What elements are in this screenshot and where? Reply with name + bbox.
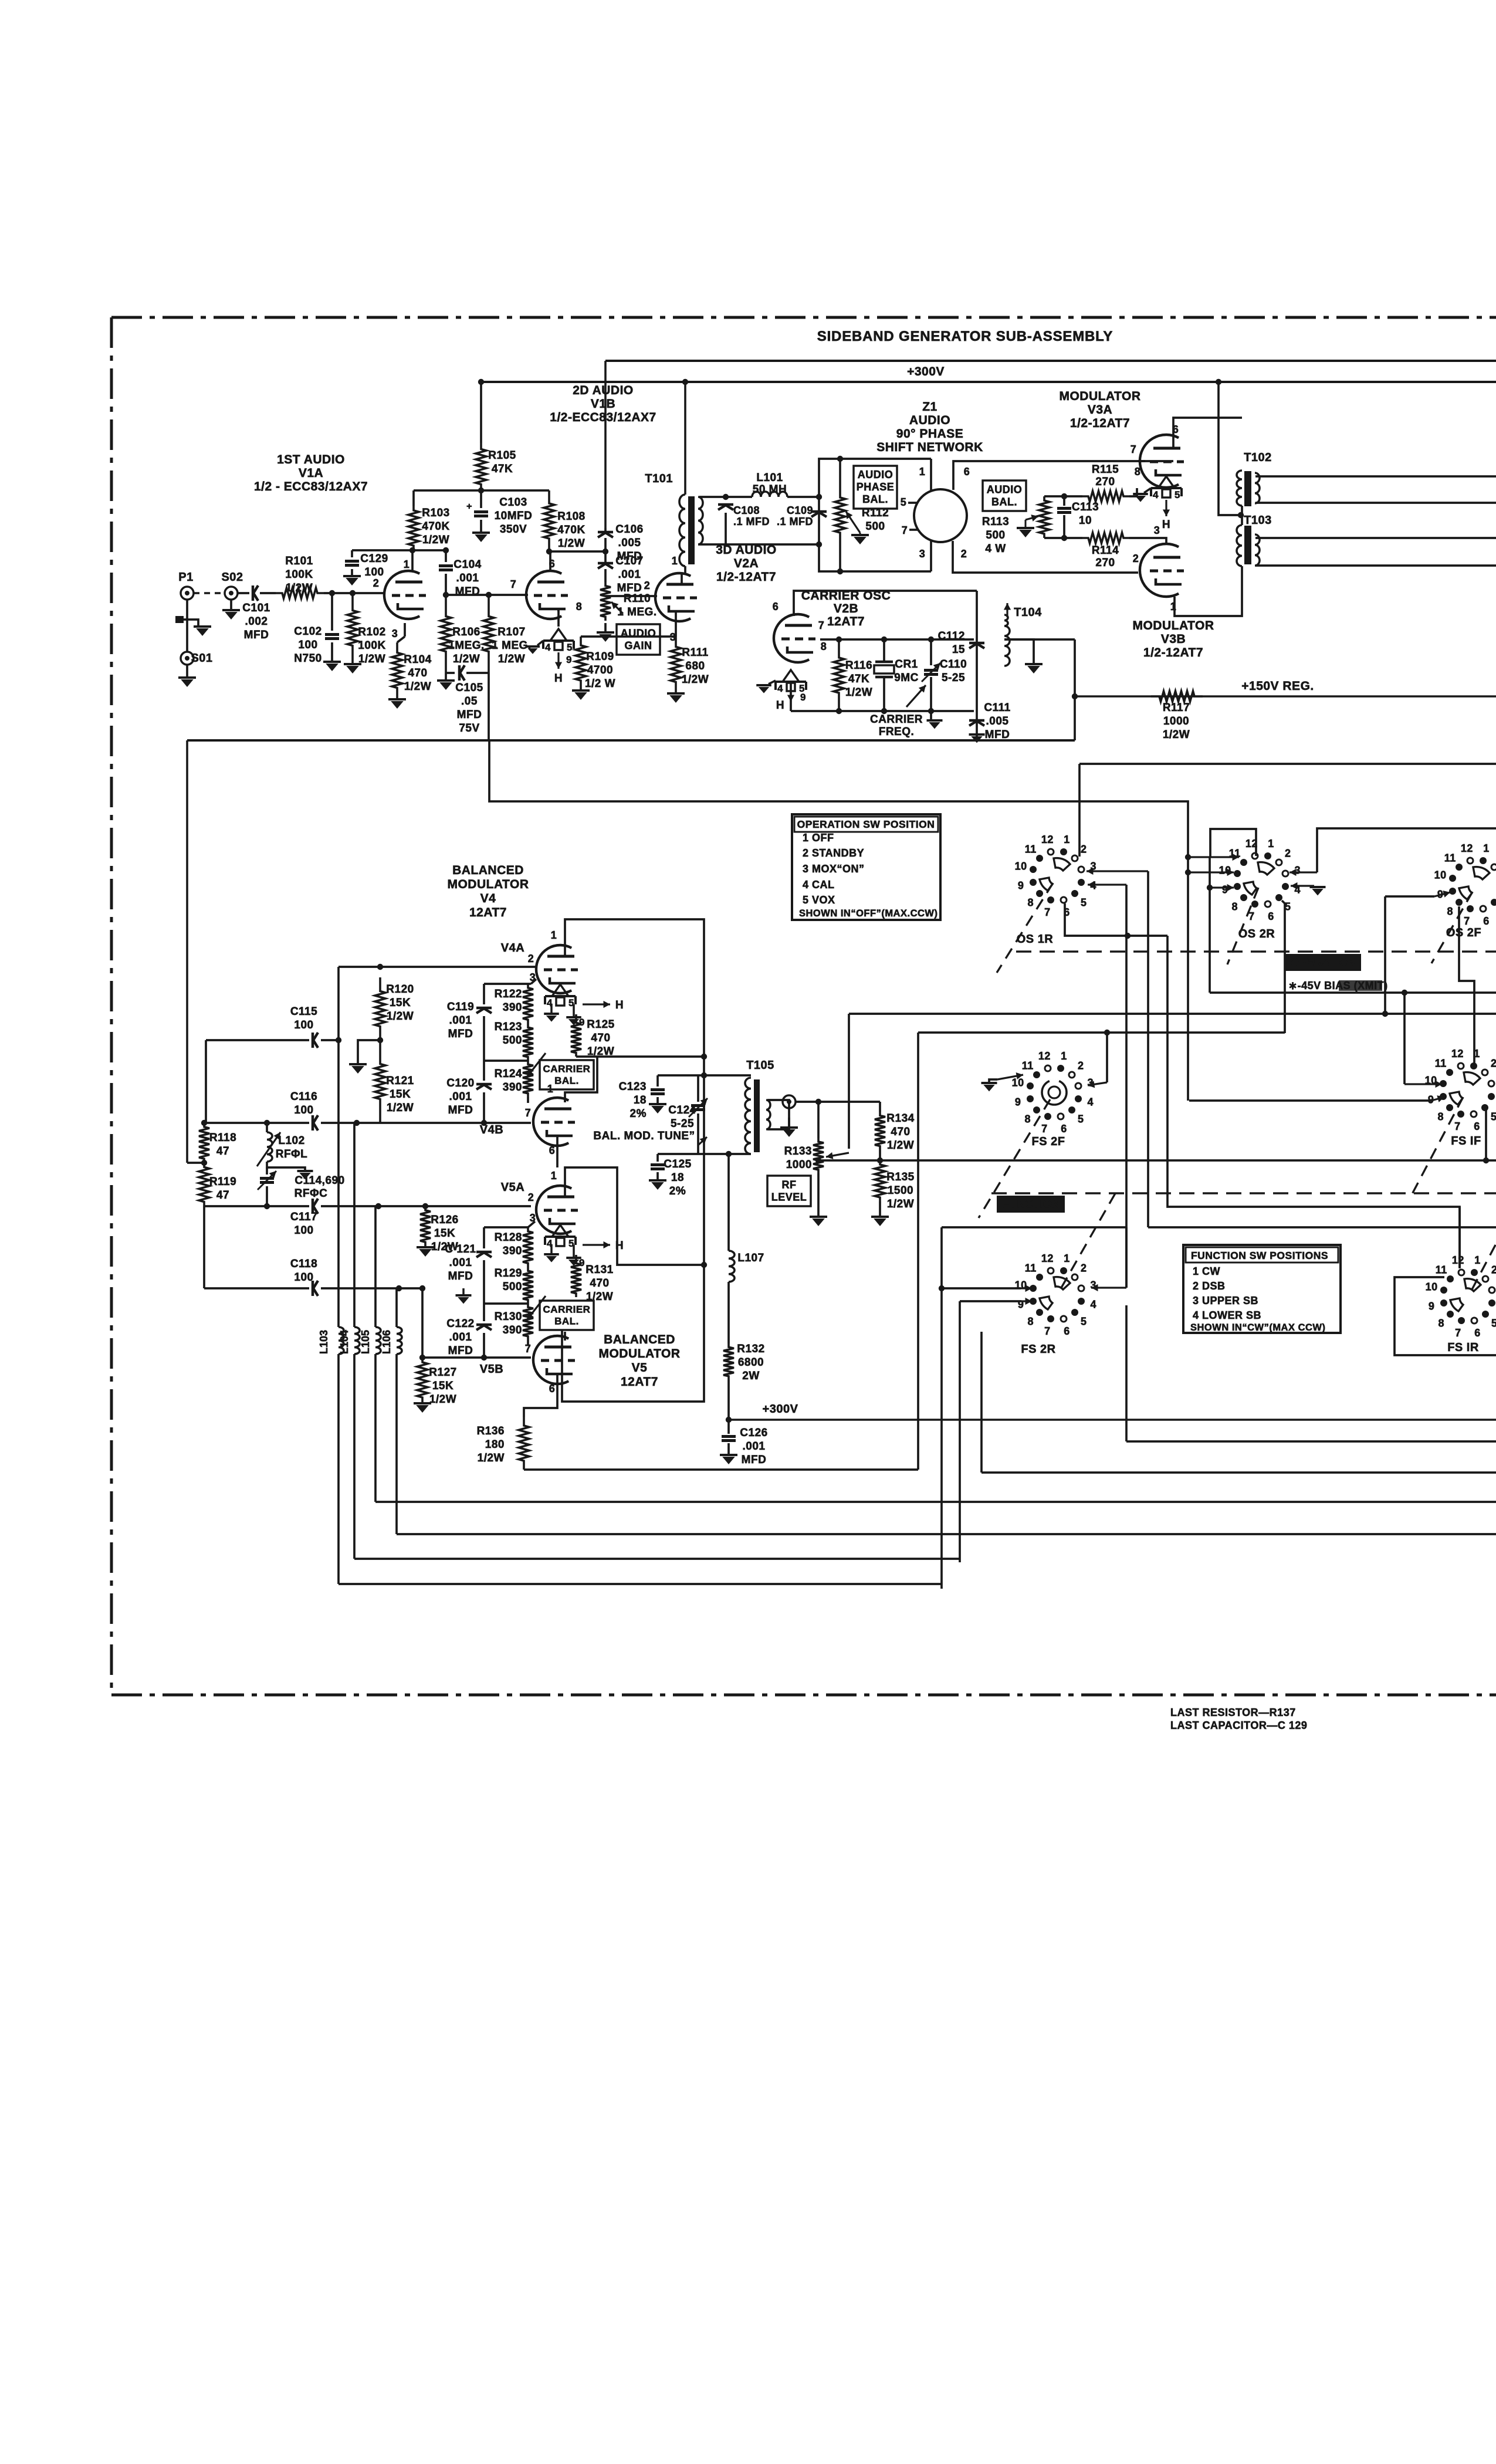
resistor R103 xyxy=(408,506,450,550)
ground C102 xyxy=(323,662,341,671)
svg-text:1 CW: 1 CW xyxy=(1193,1265,1220,1277)
tube V3A xyxy=(1140,435,1184,488)
svg-text:500: 500 xyxy=(503,1034,522,1047)
svg-text:MODULATOR: MODULATOR xyxy=(447,878,529,891)
svg-text:C119: C119 xyxy=(447,1001,474,1013)
svg-text:10: 10 xyxy=(1425,1074,1437,1086)
svg-text:C116: C116 xyxy=(290,1091,317,1103)
svg-text:3: 3 xyxy=(392,628,398,639)
svg-text:CARRIER: CARRIER xyxy=(543,1064,591,1075)
svg-text:6: 6 xyxy=(1474,1327,1481,1339)
svg-text:5: 5 xyxy=(1491,1111,1496,1122)
wire V5B plate xyxy=(528,1332,565,1345)
svg-text:1/2-ECC83/12AX7: 1/2-ECC83/12AX7 xyxy=(550,411,656,424)
svg-text:10MFD: 10MFD xyxy=(495,510,533,522)
resistor R102 xyxy=(347,593,386,665)
svg-text:11: 11 xyxy=(1025,1263,1037,1274)
svg-text:1: 1 xyxy=(1474,1254,1481,1266)
wire R107 bottom to box xyxy=(488,673,490,739)
svg-text:7: 7 xyxy=(1044,1325,1051,1337)
resistor R116 xyxy=(834,639,872,711)
svg-text:RFΦL: RFΦL xyxy=(276,1148,308,1160)
T102 secondary wires xyxy=(1255,476,1496,503)
capacitor C103 xyxy=(466,490,532,536)
tube V5A xyxy=(536,1186,578,1234)
transformer T103 xyxy=(1237,514,1272,566)
svg-text:6: 6 xyxy=(1474,1121,1480,1132)
svg-text:R128: R128 xyxy=(495,1231,522,1244)
V4A labels xyxy=(501,929,557,983)
wire runback L104 xyxy=(354,1558,960,1560)
ground R104 xyxy=(388,699,406,709)
capacitor C126 xyxy=(720,1420,768,1466)
svg-text:C129: C129 xyxy=(360,553,388,565)
wire plate bus to T105 xyxy=(701,1057,707,1265)
svg-text:5-25: 5-25 xyxy=(942,672,965,684)
svg-text:R135: R135 xyxy=(886,1171,914,1183)
wire FS2F box top xyxy=(918,1030,1110,1035)
svg-text:+300V: +300V xyxy=(763,1403,798,1416)
wire riser x1673 xyxy=(980,1332,983,1473)
svg-text:1: 1 xyxy=(1474,1048,1480,1060)
capacitor C118 xyxy=(204,1258,425,1296)
svg-text:8: 8 xyxy=(1024,1113,1031,1125)
wire runback y2510 xyxy=(981,1471,1496,1474)
svg-text:R114: R114 xyxy=(1092,544,1119,557)
resistor R130 xyxy=(495,1296,546,1340)
wire riser x1920 lower xyxy=(1125,1305,1128,1441)
svg-text:2: 2 xyxy=(1081,1263,1087,1274)
potentiometer R112 xyxy=(835,459,889,571)
svg-text:6: 6 xyxy=(1061,1123,1067,1135)
svg-text:8: 8 xyxy=(1135,466,1141,478)
svg-text:7: 7 xyxy=(1131,444,1137,455)
wire C117-C118 left link xyxy=(203,1206,205,1288)
inductor L104 xyxy=(339,1327,360,1559)
audio section enclosure bottom xyxy=(187,739,1075,742)
svg-text:MFD: MFD xyxy=(244,629,269,641)
svg-text:9: 9 xyxy=(579,1257,585,1268)
svg-text:SHOWN IN“CW”(MAX CCW): SHOWN IN“CW”(MAX CCW) xyxy=(1190,1322,1325,1333)
ground C129 xyxy=(343,576,361,585)
resistor R124 xyxy=(495,1053,546,1097)
svg-text:R115: R115 xyxy=(1092,463,1119,476)
svg-text:.05: .05 xyxy=(461,695,478,708)
svg-text:C110: C110 xyxy=(940,658,967,671)
svg-text:1/2 - ECC83/12AX7: 1/2 - ECC83/12AX7 xyxy=(254,480,368,493)
capacitor C121 xyxy=(445,1227,492,1304)
svg-text:9: 9 xyxy=(1015,1096,1021,1108)
svg-text:1: 1 xyxy=(404,559,410,570)
svg-text:V3B: V3B xyxy=(1161,632,1186,646)
svg-text:.1 MFD: .1 MFD xyxy=(777,516,813,527)
tube V5B xyxy=(533,1336,575,1384)
wire V1A grid to V1B xyxy=(446,578,528,598)
svg-text:OS 2F: OS 2F xyxy=(1446,926,1481,939)
svg-text:5: 5 xyxy=(1081,896,1087,908)
svg-text:T103: T103 xyxy=(1244,514,1272,527)
svg-text:3: 3 xyxy=(919,548,926,560)
resistor R132 xyxy=(723,1343,765,1420)
wire V4B grid xyxy=(380,1120,531,1126)
svg-text:9: 9 xyxy=(579,1017,585,1028)
heater cluster V3A xyxy=(1151,476,1182,531)
svg-text:.001: .001 xyxy=(449,1091,472,1103)
svg-text:FUNCTION SW POSITIONS: FUNCTION SW POSITIONS xyxy=(1191,1250,1328,1261)
potentiometer R113 xyxy=(982,496,1050,555)
wire V5A grid xyxy=(378,1203,531,1209)
wire grid bus above V1A xyxy=(352,547,449,553)
wire T105 secondary xyxy=(767,1100,789,1129)
capacitor C115 xyxy=(206,1006,341,1048)
resistor R106 xyxy=(441,595,485,673)
wire OS2R c4 ground xyxy=(1291,882,1326,896)
transformer T104 xyxy=(1004,603,1043,673)
svg-text:9: 9 xyxy=(1429,1301,1435,1312)
wire V4B cathode down xyxy=(556,1137,559,1167)
svg-text:R113: R113 xyxy=(982,516,1009,528)
wire bus y1302 xyxy=(1079,763,1496,765)
svg-text:P1: P1 xyxy=(178,571,193,584)
tube V3B xyxy=(1140,544,1184,597)
wire y1723 riser xyxy=(848,1014,850,1149)
resistor R117 xyxy=(1151,691,1203,741)
rotary switch FS 2F xyxy=(979,1050,1094,1218)
svg-text:5: 5 xyxy=(901,496,907,508)
capacitor C111 xyxy=(969,702,1011,741)
wire R115 top rail xyxy=(1044,493,1082,499)
svg-text:12: 12 xyxy=(1038,1050,1051,1062)
svg-text:FS 2R: FS 2R xyxy=(1021,1343,1055,1356)
svg-text:OS 1R: OS 1R xyxy=(1017,933,1054,946)
svg-text:FS IF: FS IF xyxy=(1451,1135,1481,1148)
rf level box xyxy=(767,1176,811,1206)
wire V4A pin3 column xyxy=(484,979,536,984)
svg-text:2W: 2W xyxy=(742,1370,760,1382)
wire riser x1636 xyxy=(959,1301,961,1562)
svg-text:C117: C117 xyxy=(290,1211,317,1223)
wire T101 secondary top xyxy=(699,494,729,500)
svg-text:2 STANDBY: 2 STANDBY xyxy=(803,847,864,859)
svg-text:390: 390 xyxy=(503,1245,522,1257)
svg-text:1/2W: 1/2W xyxy=(358,653,385,665)
wire riser x2027 end xyxy=(1187,1100,1189,1101)
wire R103 top xyxy=(414,488,484,506)
svg-text:6: 6 xyxy=(549,1145,556,1156)
svg-text:MODULATOR: MODULATOR xyxy=(598,1347,680,1360)
wire R101 to V1A grid xyxy=(324,590,385,596)
inductor L106 wire xyxy=(395,1288,398,1327)
svg-text:1/2W: 1/2W xyxy=(558,537,585,550)
wire OS2F c9 feed xyxy=(1385,891,1450,898)
wire T101 secondary bottom xyxy=(698,541,822,547)
svg-text:C114,690: C114,690 xyxy=(295,1175,344,1187)
svg-text:7: 7 xyxy=(1464,915,1470,927)
svg-text:470: 470 xyxy=(591,1032,610,1044)
svg-text:BAL.: BAL. xyxy=(991,496,1017,507)
svg-text:11: 11 xyxy=(1435,1058,1447,1069)
svg-text:2: 2 xyxy=(528,1192,534,1203)
transformer T101 xyxy=(645,472,703,566)
svg-text:3 MOX“ON”: 3 MOX“ON” xyxy=(803,863,865,875)
wire FS2R c3 arrow xyxy=(1091,1284,1126,1291)
V1B pin labels xyxy=(549,558,583,612)
svg-text:C101: C101 xyxy=(242,602,270,614)
svg-text:T102: T102 xyxy=(1244,451,1272,464)
resistor R136 xyxy=(477,1417,529,1470)
svg-text:GAIN: GAIN xyxy=(625,639,652,651)
tube V4A xyxy=(536,945,578,993)
svg-text:R109: R109 xyxy=(586,651,614,663)
svg-text:R134: R134 xyxy=(886,1112,914,1125)
svg-text:15K: 15K xyxy=(390,1088,411,1101)
connector S01 xyxy=(181,652,213,665)
V2B heater cluster xyxy=(776,670,806,712)
svg-text:R126: R126 xyxy=(431,1214,458,1226)
svg-text:12: 12 xyxy=(1461,842,1473,854)
capacitor C113 xyxy=(1057,496,1099,541)
audio section enclosure left xyxy=(186,740,188,1163)
svg-text:6800: 6800 xyxy=(738,1356,764,1369)
ground R111 xyxy=(667,693,685,703)
svg-text:N750: N750 xyxy=(294,652,321,665)
operation inverse label xyxy=(1285,954,1361,971)
text BALANCED MODULATOR V4 xyxy=(447,864,529,919)
svg-text:1: 1 xyxy=(1061,1050,1067,1062)
wire OS1R c3 xyxy=(1087,868,1148,1227)
transformer T105 xyxy=(745,1059,774,1154)
wire OS2F c8 drop xyxy=(1459,906,1474,1065)
svg-text:H: H xyxy=(615,999,624,1011)
ground R135 xyxy=(871,1201,889,1226)
svg-text:180: 180 xyxy=(485,1439,505,1451)
wire V4B plate xyxy=(565,1057,597,1102)
svg-text:1/2W: 1/2W xyxy=(887,1198,914,1210)
wire R105 junction to R108 xyxy=(481,489,549,492)
svg-text:R120: R120 xyxy=(386,983,414,996)
svg-text:R127: R127 xyxy=(429,1366,456,1379)
wire OS1R c4 xyxy=(1088,881,1126,1288)
svg-text:L105: L105 xyxy=(360,1330,371,1354)
svg-text:T105: T105 xyxy=(746,1059,774,1072)
svg-text:BAL.: BAL. xyxy=(554,1075,579,1087)
svg-text:OS 2R: OS 2R xyxy=(1238,928,1275,940)
svg-text:H: H xyxy=(776,699,784,712)
ground R113 wiper xyxy=(1017,520,1034,537)
wire R124 to V4B plate xyxy=(527,1097,529,1103)
svg-text:AUDIO: AUDIO xyxy=(858,469,893,480)
svg-text:100: 100 xyxy=(294,1104,313,1116)
wire riser x1605 xyxy=(939,1227,945,1589)
connector S02 xyxy=(221,571,243,600)
svg-text:H: H xyxy=(615,1240,624,1252)
resistor R125 xyxy=(571,1014,615,1058)
svg-text:9: 9 xyxy=(800,692,806,703)
ground FS2F c11 xyxy=(981,1072,1024,1091)
svg-text:1: 1 xyxy=(1064,1253,1070,1264)
inductor L107 xyxy=(726,1151,764,1343)
svg-text:9: 9 xyxy=(1018,880,1024,892)
inductor L101 xyxy=(726,472,822,500)
resistor R119 xyxy=(199,1163,236,1206)
svg-text:SIDEBAND GENERATOR SUB-ASSEM: SIDEBAND GENERATOR SUB-ASSEMBLY xyxy=(817,329,1113,344)
Z1 pin 6 xyxy=(953,461,1173,490)
title SIDEBAND GENERATOR SUB-ASSEMBLY xyxy=(817,329,1113,344)
svg-text:18: 18 xyxy=(671,1172,684,1184)
wire P1-S02 dashed xyxy=(194,592,225,594)
svg-text:1MEG.: 1MEG. xyxy=(448,639,485,652)
svg-text:BAL.: BAL. xyxy=(862,493,888,505)
svg-text:SHIFT NETWORK: SHIFT NETWORK xyxy=(876,441,983,454)
audio phase bal boxed label xyxy=(854,466,897,509)
rotary switch FS 2R xyxy=(1015,1190,1117,1356)
operation dashed line xyxy=(1016,950,1496,953)
svg-text:L104: L104 xyxy=(339,1330,350,1354)
ground V5A cluster xyxy=(544,1245,585,1268)
svg-text:R108: R108 xyxy=(557,510,585,523)
text MODULATOR V3B xyxy=(1132,619,1214,659)
wire V1B plate xyxy=(549,551,551,572)
wire T103 primary bottom to V3B plate xyxy=(1175,566,1242,616)
svg-text:9: 9 xyxy=(566,654,572,665)
svg-text:390: 390 xyxy=(503,1001,522,1014)
svg-text:MFD: MFD xyxy=(448,1345,473,1357)
svg-text:2: 2 xyxy=(1491,1058,1496,1069)
inductor L103 xyxy=(318,1327,344,1584)
FS1R box xyxy=(1395,1277,1496,1355)
svg-text:CARRIER: CARRIER xyxy=(543,1304,591,1315)
rotary switch OS 1R xyxy=(997,834,1096,973)
svg-text:1/2W: 1/2W xyxy=(682,673,709,686)
capacitor C109 xyxy=(777,505,827,527)
resistor R135 xyxy=(875,1160,915,1210)
potentiometer R110 xyxy=(600,582,657,621)
svg-text:500: 500 xyxy=(503,1281,522,1293)
svg-text:FREQ.: FREQ. xyxy=(879,726,915,738)
crystal CR1 xyxy=(874,639,919,711)
svg-text:1: 1 xyxy=(1170,601,1177,612)
svg-text:AUDIO: AUDIO xyxy=(909,414,950,427)
svg-text:10: 10 xyxy=(1015,860,1027,872)
connector P1 xyxy=(178,571,194,600)
ground V2B cathode xyxy=(756,681,776,693)
wire OS2R c9 feed xyxy=(1207,857,1234,993)
svg-text:4: 4 xyxy=(1088,1096,1094,1108)
wire riser x1957 turn xyxy=(1148,1226,1496,1228)
svg-text:R119: R119 xyxy=(209,1176,236,1188)
resistor R101 xyxy=(260,555,324,598)
svg-text:C112: C112 xyxy=(938,630,965,642)
text CARRIER FREQ xyxy=(870,685,926,738)
svg-text:H: H xyxy=(554,672,563,685)
wire OS2R c12 route xyxy=(1210,829,1256,857)
audio bal boxed label xyxy=(983,480,1026,511)
svg-text:12AT7: 12AT7 xyxy=(827,615,865,628)
output jack T105 xyxy=(780,1095,798,1137)
svg-text:C124: C124 xyxy=(668,1104,696,1116)
svg-text:680: 680 xyxy=(685,660,705,672)
capacitor C101 xyxy=(238,585,270,641)
svg-text:8: 8 xyxy=(576,601,583,612)
inductor L105 xyxy=(360,1327,381,1502)
svg-text:1/2W: 1/2W xyxy=(845,686,872,699)
svg-text:R106: R106 xyxy=(452,626,480,638)
svg-text:L102: L102 xyxy=(278,1135,304,1147)
svg-text:C115: C115 xyxy=(290,1006,317,1018)
text MODULATOR V3A xyxy=(1059,390,1140,430)
svg-text:L106: L106 xyxy=(381,1330,392,1354)
svg-text:FS 2F: FS 2F xyxy=(1032,1135,1065,1148)
svg-text:390: 390 xyxy=(503,1081,522,1094)
svg-text:8: 8 xyxy=(1447,905,1453,917)
wire +300V return xyxy=(726,1403,1496,1423)
V5 enclosure box xyxy=(562,1265,704,1402)
capacitor C122 xyxy=(446,1304,492,1358)
text -45V bias xyxy=(1288,980,1388,991)
wire R108 bottom xyxy=(546,549,608,554)
transformer T102 xyxy=(1237,451,1272,506)
svg-text:5: 5 xyxy=(567,642,573,653)
Z1 pin 5 xyxy=(901,496,917,508)
svg-text:C107: C107 xyxy=(615,555,643,567)
svg-text:R102: R102 xyxy=(358,626,385,638)
svg-text:R130: R130 xyxy=(495,1311,522,1323)
svg-text:1/2W: 1/2W xyxy=(498,653,525,665)
svg-text:8: 8 xyxy=(1027,1315,1034,1327)
capacitor C106 xyxy=(598,523,644,563)
svg-text:5-25: 5-25 xyxy=(671,1118,694,1130)
wire V4A grid xyxy=(339,964,536,970)
svg-text:.002: .002 xyxy=(245,615,268,628)
svg-text:R125: R125 xyxy=(587,1018,614,1031)
ground V4A cluster xyxy=(544,1004,585,1028)
svg-text:MFD: MFD xyxy=(448,1104,473,1116)
svg-text:1/2W: 1/2W xyxy=(478,1452,505,1464)
resistor R115 xyxy=(1082,463,1129,502)
carrier bal box V4 xyxy=(540,1060,594,1089)
svg-text:MODULATOR: MODULATOR xyxy=(1132,619,1214,632)
inductor L105 wire xyxy=(374,1206,377,1327)
wire plate bus xyxy=(576,1054,707,1060)
svg-text:7: 7 xyxy=(1041,1123,1048,1135)
svg-text:6: 6 xyxy=(549,1383,556,1395)
audio gain boxed label xyxy=(617,624,660,655)
svg-text:.001: .001 xyxy=(449,1014,472,1027)
carrier osc frame right xyxy=(976,591,978,740)
svg-text:1/2W: 1/2W xyxy=(404,681,431,693)
V2B pin labels xyxy=(773,601,827,652)
resistor R105 xyxy=(476,443,486,490)
V1A pin labels xyxy=(373,559,410,639)
svg-text:1/2W: 1/2W xyxy=(387,1102,414,1114)
svg-text:R103: R103 xyxy=(422,507,449,519)
svg-text:RFΦC: RFΦC xyxy=(295,1187,328,1200)
svg-text:2: 2 xyxy=(528,953,534,964)
wire C119-R123 join xyxy=(484,1060,528,1062)
svg-text:470K: 470K xyxy=(422,520,449,533)
svg-text:1/2W: 1/2W xyxy=(1163,729,1190,741)
svg-text:MFD: MFD xyxy=(742,1454,767,1466)
svg-text:2D AUDIO: 2D AUDIO xyxy=(573,384,634,397)
svg-text:C104: C104 xyxy=(453,559,481,571)
capacitor C112 xyxy=(938,630,984,656)
ground S01 xyxy=(178,665,196,687)
wire OS2R c3 xyxy=(1289,828,1496,876)
svg-text:V2A: V2A xyxy=(734,557,759,570)
resistor R128 xyxy=(495,1227,533,1267)
svg-text:+300V: +300V xyxy=(907,365,945,378)
svg-text:500: 500 xyxy=(986,529,1005,541)
